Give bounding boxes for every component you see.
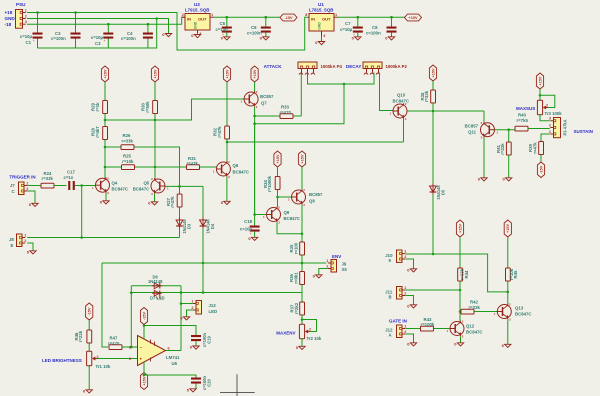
wire U2 out <box>214 16 281 19</box>
svg-text:Tr3 100k: Tr3 100k <box>545 111 563 116</box>
supply +15V R44 <box>456 220 463 237</box>
wire R29-R28 <box>104 114 107 127</box>
svg-text:+15V: +15V <box>153 69 157 78</box>
wire C4 tap <box>147 23 150 48</box>
label Q8 <box>309 192 323 203</box>
svg-text:Q7: Q7 <box>261 100 267 105</box>
wire C7 tap <box>357 17 359 36</box>
wire Q5 base to D4 <box>202 186 204 219</box>
svg-text:c=10µ: c=10µ <box>91 35 104 40</box>
resistor R46 <box>74 330 92 343</box>
svg-text:TRIGGER IN: TRIGGER IN <box>9 174 35 179</box>
wire Q11 collector <box>483 111 485 123</box>
wire rail D7 <box>131 291 302 294</box>
svg-text:BC847C: BC847C <box>233 169 249 174</box>
label P2 value <box>386 64 408 69</box>
diode D5 1N4148 <box>430 184 446 200</box>
wire Q4 base node down <box>80 186 83 239</box>
label TRIGGER IN <box>9 174 35 179</box>
wire Q7 emitter to R33 row <box>253 107 256 216</box>
label U6 <box>172 361 178 366</box>
capacitor C4 <box>121 31 153 41</box>
svg-text:Q6: Q6 <box>233 163 239 168</box>
svg-text:+15V: +15V <box>538 76 542 85</box>
svg-text:A: A <box>389 332 392 337</box>
svg-text:MAXSUS: MAXSUS <box>516 106 535 111</box>
svg-text:r=33k: r=33k <box>424 90 429 102</box>
svg-text:2: 2 <box>24 239 26 243</box>
capacitor C7 <box>340 21 363 37</box>
capacitor C5 <box>216 21 232 37</box>
svg-text:BC857: BC857 <box>309 192 323 197</box>
supply +15V D <box>251 66 258 82</box>
wire C19 tap <box>144 326 196 336</box>
trimmer Tr1 LED BRIGHTNESS <box>87 351 99 365</box>
wire bias row y120 <box>105 99 244 120</box>
pot DECAY P2 <box>363 62 382 75</box>
svg-text:ENV: ENV <box>332 254 341 259</box>
resistor R30 <box>141 101 158 114</box>
wire J8 row <box>27 237 179 239</box>
label Q13 <box>515 306 531 317</box>
svg-text:1: 1 <box>404 324 406 328</box>
svg-text:2: 2 <box>549 123 551 127</box>
ground J9 <box>313 273 322 278</box>
ground Q12 <box>454 341 463 346</box>
wire C6 tap <box>265 17 267 36</box>
wire Q8 base <box>278 196 292 198</box>
label ENV <box>332 254 341 259</box>
svg-text:Q8: Q8 <box>309 198 315 203</box>
svg-text:r=9k1: r=9k1 <box>294 272 299 284</box>
connector J11 <box>397 286 407 299</box>
svg-text:+15V: +15V <box>253 69 257 78</box>
connector PSU <box>16 8 27 28</box>
wire R43 to Q12 base <box>434 328 451 330</box>
wire C20 to gnd <box>195 384 197 389</box>
svg-text:+15V: +15V <box>431 68 435 77</box>
svg-text:r=1000k: r=1000k <box>267 175 272 192</box>
svg-text:C18: C18 <box>244 219 252 224</box>
svg-text:LED: LED <box>209 309 218 314</box>
label Tr3 <box>545 111 563 116</box>
svg-text:r=33k: r=33k <box>42 176 54 181</box>
label J9 <box>342 262 348 273</box>
svg-text:OUT: OUT <box>198 17 207 22</box>
svg-text:6: 6 <box>168 346 170 350</box>
svg-text:OUT: OUT <box>322 17 331 22</box>
wire Q5 emitter <box>154 194 156 202</box>
svg-text:-18: -18 <box>5 22 12 27</box>
resistor R32 <box>213 126 230 139</box>
wire MAXENV loop <box>302 320 317 332</box>
svg-text:r=470: r=470 <box>280 110 292 115</box>
wire R24 to C17 <box>54 185 67 187</box>
svg-text:+18: +18 <box>5 10 13 15</box>
svg-text:BC847C: BC847C <box>466 330 482 335</box>
wire Q9 emitter row <box>277 222 303 235</box>
wire Q10 emitter return <box>227 141 404 143</box>
label J10 <box>385 253 393 263</box>
ground C7 <box>352 35 361 40</box>
supply +15V A <box>101 66 108 82</box>
svg-text:1: 1 <box>26 181 28 185</box>
wire Q11 emitter <box>483 138 485 178</box>
svg-text:-15V: -15V <box>142 312 146 320</box>
wire oval G to R38 <box>432 81 434 90</box>
supply -15V opamp <box>140 308 147 325</box>
connector J13 <box>191 299 201 314</box>
resistor R25 <box>122 154 135 170</box>
svg-text:P3 47kA: P3 47kA <box>563 119 568 135</box>
svg-text:r=47k: r=47k <box>533 142 538 154</box>
ground Q5 <box>148 200 157 205</box>
svg-text:Q9: Q9 <box>284 210 290 215</box>
svg-text:c=10µ: c=10µ <box>216 27 229 32</box>
svg-text:+15V: +15V <box>276 154 280 163</box>
svg-text:r=100k: r=100k <box>421 322 435 327</box>
resistor R29 <box>91 101 108 114</box>
svg-text:+15V: +15V <box>458 224 462 233</box>
resistor R44 <box>458 268 469 281</box>
svg-text:r=22k: r=22k <box>500 143 505 155</box>
resistor R45 <box>506 268 519 281</box>
svg-text:3: 3 <box>25 20 27 24</box>
wire decay to Q10 base <box>380 73 394 111</box>
wire C8 tap <box>391 17 393 36</box>
transistor Q4 BC847C <box>92 176 110 195</box>
svg-text:2: 2 <box>26 187 28 191</box>
resistor R36 <box>289 272 304 285</box>
svg-text:U6: U6 <box>172 361 178 366</box>
svg-text:BC857: BC857 <box>260 94 274 99</box>
svg-text:D3: D3 <box>187 223 192 229</box>
op-amp U6 LM741 <box>129 336 170 366</box>
supply -15V sustain <box>537 162 544 178</box>
wire D4 down to rail <box>202 229 205 294</box>
svg-text:2: 2 <box>404 255 406 259</box>
svg-text:1: 1 <box>25 8 27 12</box>
resistor R34 <box>263 175 280 192</box>
svg-text:c=100n: c=100n <box>366 30 381 35</box>
wire D5 to J10 row <box>432 195 435 256</box>
wire Q9 base <box>255 214 267 216</box>
svg-text:C7: C7 <box>345 21 351 26</box>
svg-text:Tr1 10k: Tr1 10k <box>96 364 111 369</box>
ground J13 <box>180 315 189 320</box>
resistor R24 <box>41 171 54 188</box>
svg-text:R25: R25 <box>123 154 131 159</box>
wire C18 to gnd <box>254 232 256 237</box>
svg-text:1: 1 <box>335 13 337 17</box>
svg-text:SUSTAIN: SUSTAIN <box>574 129 593 134</box>
label P3 value <box>563 119 568 135</box>
net +18 <box>5 10 13 15</box>
svg-text:2: 2 <box>309 327 311 331</box>
svg-text:BC857: BC857 <box>465 123 479 128</box>
svg-text:IN: IN <box>187 17 191 22</box>
wire C19 to gnd <box>195 341 197 346</box>
svg-text:GND: GND <box>194 21 198 29</box>
svg-text:R40: R40 <box>518 113 526 118</box>
wire J12 pin1 to R43 <box>405 328 420 330</box>
resistor R28 <box>91 126 108 140</box>
resistor R41 <box>496 142 511 155</box>
svg-text:J8: J8 <box>9 237 14 242</box>
wire Q10 collector row <box>407 110 484 113</box>
resistor R26 <box>121 133 134 150</box>
svg-text:r=33k: r=33k <box>469 305 481 310</box>
trimmer Tr2 MAXENV <box>299 324 311 338</box>
transistor Q5 BC847C <box>151 177 169 196</box>
pot ATTACK P4 <box>298 62 317 75</box>
svg-text:r=2k2: r=2k2 <box>294 302 299 314</box>
connector J8 <box>17 233 27 246</box>
wire ENV row <box>102 262 326 265</box>
wire R45 column top <box>507 237 509 268</box>
wire wiper to hold node <box>255 84 344 124</box>
label Q9 <box>284 210 300 221</box>
label GATE IN <box>389 318 407 323</box>
wire Q5 base <box>165 185 203 188</box>
label J8 <box>9 237 14 248</box>
wire J8 pin2 to gnd <box>27 243 33 251</box>
wire R34 to Q9 collector <box>276 190 279 208</box>
wire R40 to P3 <box>528 128 550 130</box>
svg-text:J13: J13 <box>209 303 217 308</box>
svg-text:C3: C3 <box>95 41 101 46</box>
resistor R33 <box>280 104 294 118</box>
wire C2 tap <box>74 11 77 48</box>
ground U1 <box>315 36 324 45</box>
svg-text:E: E <box>11 243 14 248</box>
svg-text:BC847C: BC847C <box>515 312 531 317</box>
svg-text:c=10µ: c=10µ <box>240 226 253 231</box>
svg-text:c=1n: c=1n <box>64 175 74 180</box>
svg-text:2: 2 <box>546 103 548 107</box>
supply +15V F <box>298 151 305 167</box>
svg-text:U1: U1 <box>318 2 324 7</box>
svg-text:3: 3 <box>129 357 131 361</box>
ground Q4 <box>100 199 109 204</box>
label Q7 <box>260 94 274 105</box>
wire J10 pin2 to gnd <box>405 259 413 269</box>
wire J13 pin1 <box>181 303 193 305</box>
wire oval C to R32 <box>226 82 228 126</box>
wire Q11 base row <box>495 128 516 131</box>
svg-text:+15V: +15V <box>300 154 304 163</box>
sheet origin crosshair <box>220 374 255 396</box>
ground C6 <box>260 35 269 40</box>
svg-text:-15V: -15V <box>539 165 543 173</box>
label Q12 <box>466 324 482 335</box>
capacitor C18 <box>240 219 260 236</box>
svg-text:1000kA P2: 1000kA P2 <box>386 64 408 69</box>
svg-text:c=100n: c=100n <box>51 36 66 41</box>
wire P3 pin1 to R39 <box>541 134 550 142</box>
wire R25 row <box>105 166 186 168</box>
svg-text:R47: R47 <box>110 335 118 340</box>
wire R37 to trimmer <box>301 315 304 324</box>
ground U2 <box>191 33 200 38</box>
svg-text:Q12: Q12 <box>466 324 475 329</box>
supply +15V out <box>405 14 422 21</box>
ground C20 <box>187 387 196 392</box>
ground J12 <box>407 341 416 346</box>
wire attack wiper <box>308 73 375 86</box>
wire R46 to trimmer <box>88 343 90 352</box>
svg-text:2: 2 <box>182 13 184 17</box>
wire rail D6 <box>131 285 181 287</box>
wire rail to R37 <box>301 293 303 303</box>
svg-text:Q10: Q10 <box>397 93 406 98</box>
svg-text:BC847C: BC847C <box>284 216 300 221</box>
wire R44 to Q12 collector <box>459 281 462 321</box>
svg-text:2: 2 <box>404 291 406 295</box>
wire Tr2 to gnd <box>301 338 303 346</box>
label ATTACK <box>264 64 283 69</box>
svg-text:c=10µ: c=10µ <box>340 27 353 32</box>
wire R27 to D3 <box>179 207 181 220</box>
svg-text:-15V: -15V <box>284 16 292 20</box>
svg-text:R33: R33 <box>281 104 289 109</box>
ground R41 <box>503 176 512 181</box>
svg-text:DECAY: DECAY <box>346 64 361 69</box>
supply +15V C <box>223 66 230 82</box>
ground J7 <box>29 202 38 207</box>
svg-text:Q13: Q13 <box>515 306 524 311</box>
connector P3 SUSTAIN <box>549 117 561 138</box>
wire R36 column <box>301 263 303 272</box>
label SUSTAIN <box>574 129 593 134</box>
diode D3 1N4148 <box>176 218 191 234</box>
svg-text:Q11: Q11 <box>468 130 476 135</box>
svg-text:+15V: +15V <box>103 69 107 78</box>
ground Q11 <box>478 176 487 181</box>
wire -18 rail <box>27 17 185 24</box>
connector J7 <box>19 181 29 194</box>
label Q5 <box>133 180 150 191</box>
diode D6 1N4148 <box>148 275 163 289</box>
wire J7 pin2 to gnd <box>27 191 35 203</box>
svg-text:2: 2 <box>404 330 406 334</box>
svg-text:GATE IN: GATE IN <box>389 318 407 323</box>
svg-text:LM741: LM741 <box>166 355 180 360</box>
supply +15V G <box>429 65 436 81</box>
resistor R37 <box>290 302 305 315</box>
wire -15V to opamp <box>143 324 146 339</box>
label J11 <box>385 289 393 299</box>
svg-text:2: 2 <box>25 14 27 18</box>
svg-text:U2: U2 <box>194 2 200 7</box>
ground C5 <box>221 35 230 40</box>
wire R32 to Q6 collector <box>226 139 229 162</box>
resistor R39 <box>528 142 543 155</box>
svg-text:R42: R42 <box>470 299 478 304</box>
wire rail right vertical <box>180 286 183 351</box>
resistor R47 <box>108 335 122 349</box>
label L7815_SQB <box>309 8 333 13</box>
svg-text:R24: R24 <box>44 171 52 176</box>
wire R35 to ENV row <box>301 255 303 263</box>
wire opamp output <box>166 350 182 352</box>
wire oval B to R30 <box>154 82 156 101</box>
connector J12 <box>397 324 407 337</box>
svg-text:r=22k: r=22k <box>78 330 83 342</box>
svg-text:BC847C: BC847C <box>393 98 409 103</box>
resistor R31 <box>187 156 200 170</box>
svg-text:c=10µ: c=10µ <box>20 34 33 39</box>
svg-text:PSU: PSU <box>16 2 26 7</box>
label U2 <box>194 2 200 7</box>
label Tr1 <box>96 364 111 369</box>
ic U2 L7915_SQB <box>182 13 214 36</box>
wire node to R35 <box>301 234 303 242</box>
svg-text:J7: J7 <box>10 183 15 188</box>
svg-text:D7 LED: D7 LED <box>150 295 165 300</box>
svg-text:1: 1 <box>211 13 213 17</box>
wire J11 pin2 to gnd <box>405 296 413 305</box>
wire wiper to opamp+ <box>97 358 137 360</box>
transistor Q8 BC857 <box>288 188 306 207</box>
svg-text:R44: R44 <box>464 270 469 278</box>
wire J10 row <box>405 254 509 293</box>
wire R33 row <box>255 73 302 117</box>
wire R28 to Q4 collector <box>104 140 107 179</box>
svg-text:C20: C20 <box>207 379 212 387</box>
svg-text:+: + <box>140 356 143 361</box>
svg-text:1: 1 <box>404 249 406 253</box>
label J12 <box>385 327 393 337</box>
wire R45 to Q13 collector <box>507 281 509 304</box>
svg-text:J9: J9 <box>342 262 347 267</box>
label LED BRIGHTNESS <box>42 358 82 363</box>
svg-text:D5: D5 <box>441 189 446 195</box>
svg-text:GND: GND <box>318 22 322 30</box>
svg-text:3: 3 <box>549 117 551 121</box>
ground Tr2 <box>296 345 305 350</box>
ground Q6 <box>221 200 230 205</box>
connector J10 <box>397 249 407 262</box>
svg-text:C5: C5 <box>220 21 226 26</box>
ground Q13 <box>502 343 511 348</box>
transistor Q9 BC847C <box>263 206 281 225</box>
wire Q12 emitter <box>460 336 462 342</box>
svg-text:r=100: r=100 <box>294 242 299 254</box>
svg-text:1: 1 <box>404 286 406 290</box>
svg-text:r=33k: r=33k <box>122 138 134 143</box>
net -18 <box>5 22 12 27</box>
svg-text:BC847C: BC847C <box>133 186 149 191</box>
supply +15V H <box>536 73 543 89</box>
svg-text:B: B <box>389 294 392 299</box>
supply +15V E <box>274 151 281 167</box>
ground C19 <box>190 345 199 350</box>
svg-text:GND: GND <box>5 16 16 21</box>
svg-text:1: 1 <box>549 130 551 134</box>
supply +15V R45 <box>504 220 511 237</box>
resistor R40 <box>515 113 528 131</box>
wire +18 rail <box>27 13 309 51</box>
wire R30 to Q5 collector <box>154 114 157 180</box>
wire U1 out <box>338 16 405 19</box>
transistor Q13 BC847C <box>494 303 512 322</box>
svg-text:+15V: +15V <box>506 224 510 233</box>
capacitor C17 <box>64 170 76 190</box>
wire R26 row <box>105 147 181 194</box>
wire R44 column <box>459 237 461 268</box>
ground J10 <box>407 267 416 272</box>
